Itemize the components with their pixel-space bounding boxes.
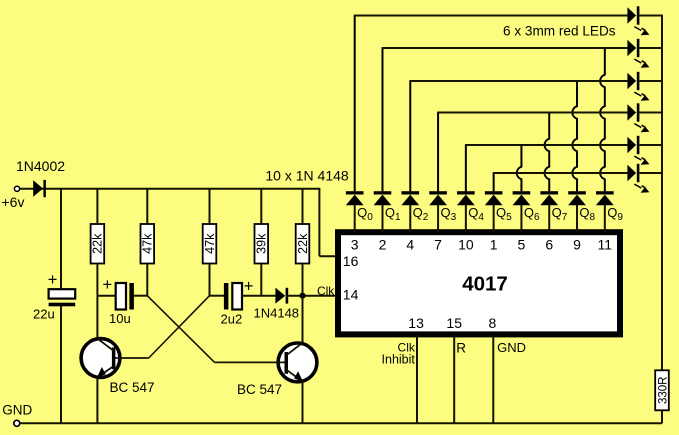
- svg-text:14: 14: [343, 287, 359, 303]
- svg-text:1N4002: 1N4002: [16, 158, 65, 174]
- svg-text:10: 10: [458, 237, 474, 253]
- svg-text:+: +: [244, 278, 254, 296]
- svg-text:22k: 22k: [91, 233, 105, 254]
- svg-text:2: 2: [379, 237, 387, 253]
- svg-text:22k: 22k: [296, 233, 310, 254]
- svg-text:+6v: +6v: [2, 194, 25, 210]
- svg-text:13: 13: [408, 315, 424, 331]
- svg-text:47k: 47k: [203, 233, 217, 254]
- svg-text:10u: 10u: [109, 311, 131, 326]
- svg-text:4017: 4017: [462, 273, 508, 296]
- svg-text:1N4148: 1N4148: [254, 306, 300, 321]
- svg-text:+: +: [48, 271, 58, 289]
- svg-text:+: +: [102, 276, 112, 294]
- svg-text:1: 1: [490, 237, 498, 253]
- svg-text:GND: GND: [2, 402, 32, 417]
- svg-text:Clk: Clk: [317, 284, 335, 298]
- svg-text:5: 5: [518, 237, 526, 253]
- svg-text:47k: 47k: [141, 233, 155, 254]
- svg-text:2u2: 2u2: [221, 312, 243, 327]
- svg-text:15: 15: [446, 315, 462, 331]
- svg-text:Inhibit: Inhibit: [382, 353, 416, 367]
- svg-text:6 x 3mm red LEDs: 6 x 3mm red LEDs: [503, 24, 616, 39]
- svg-text:4: 4: [406, 237, 414, 253]
- svg-text:16: 16: [343, 253, 359, 269]
- svg-text:9: 9: [573, 237, 581, 253]
- svg-text:11: 11: [598, 237, 613, 253]
- svg-text:BC 547: BC 547: [237, 382, 282, 397]
- svg-text:6: 6: [545, 237, 553, 253]
- svg-text:7: 7: [434, 237, 442, 253]
- svg-text:BC 547: BC 547: [110, 380, 155, 395]
- svg-text:22u: 22u: [33, 307, 55, 322]
- svg-text:GND: GND: [497, 340, 526, 355]
- svg-text:8: 8: [489, 315, 497, 331]
- svg-text:3: 3: [351, 237, 359, 253]
- svg-text:R: R: [456, 340, 466, 355]
- svg-text:330R: 330R: [657, 377, 669, 405]
- svg-text:10 x 1N 4148: 10 x 1N 4148: [265, 167, 348, 183]
- svg-text:39k: 39k: [255, 233, 269, 254]
